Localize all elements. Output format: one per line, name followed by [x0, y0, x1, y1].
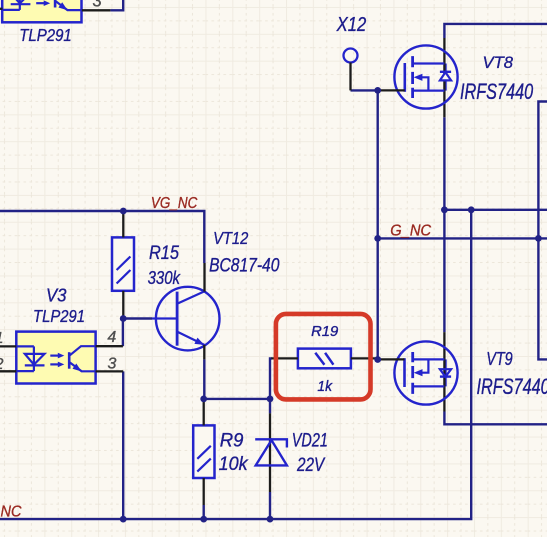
R9 bottom pin — [203, 478, 205, 505]
svg-text:BC817-40: BC817-40 — [209, 255, 280, 276]
svg-text:4: 4 — [107, 329, 116, 346]
R15 top pin — [122, 211, 124, 237]
VT9 gate pin — [378, 358, 405, 360]
wire G_NC vertical column — [377, 90, 379, 359]
zener diode VD21 — [255, 413, 287, 492]
svg-text:VD21: VD21 — [292, 430, 328, 452]
wire VD21 bottom stub — [269, 492, 271, 519]
wire G_NC horizontal — [378, 237, 547, 239]
svg-text:TLP291: TLP291 — [33, 306, 85, 326]
optocoupler V3 — [16, 332, 95, 384]
svg-text:R15: R15 — [149, 243, 179, 264]
pin 3 stub V3 — [96, 370, 124, 372]
optocoupler top (partial, cut at top edge) — [2, 0, 81, 22]
svg-text:VG_NC: VG_NC — [151, 195, 198, 212]
wire right column down to bottom bus — [0, 210, 471, 519]
VT12 emitter pin — [203, 345, 205, 360]
mosfet VT9 — [394, 332, 457, 411]
svg-text:330k: 330k — [148, 267, 182, 288]
svg-text:1: 1 — [0, 330, 4, 347]
svg-text:X12: X12 — [336, 14, 366, 36]
VT8 gate pin — [378, 89, 405, 91]
svg-text:VT8: VT8 — [483, 54, 514, 72]
R19 left pin — [271, 357, 298, 359]
transistor VT12 — [152, 287, 220, 351]
svg-text:IRFS7440: IRFS7440 — [477, 374, 547, 399]
resistor R15 — [112, 237, 134, 290]
wire R19 left drop — [270, 358, 272, 399]
resistor R19 — [298, 349, 351, 369]
pin 4 stub V3 — [96, 345, 123, 347]
svg-text:2: 2 — [0, 356, 4, 373]
svg-text:1k: 1k — [317, 379, 332, 395]
wire top pin3 to top edge — [110, 0, 123, 10]
svg-text:3: 3 — [108, 355, 117, 372]
wire right edge loop — [538, 102, 547, 360]
X12 pin — [349, 63, 351, 91]
wire V3 pin3 down to bus — [122, 371, 124, 519]
pin 2 stub V3 — [0, 370, 16, 372]
wire VT9 drain to right edge — [444, 412, 547, 425]
svg-text:V3: V3 — [46, 285, 67, 306]
wire VG_NC horizontal to VT12 collector — [0, 211, 204, 263]
R15 bottom pin — [122, 291, 124, 319]
red highlight box around R19 — [276, 314, 371, 400]
mosfet VT8 — [394, 38, 457, 117]
wire VT8 drain to top edge — [444, 24, 547, 38]
wire R9 bottom stub — [202, 505, 204, 519]
svg-text:10k: 10k — [219, 453, 249, 475]
pin 1 stub V3 — [0, 345, 16, 347]
svg-text:IRFS7440: IRFS7440 — [460, 79, 534, 104]
VT12 collector pin — [203, 263, 205, 292]
pin 2 stub (top optocoupler) — [0, 8, 3, 10]
svg-text:_NC: _NC — [0, 503, 22, 520]
R19 right pin — [351, 357, 378, 359]
svg-text:R9: R9 — [220, 429, 244, 451]
wire VT8 source down to VT9 — [443, 117, 445, 332]
wire VD21 top stub — [269, 399, 271, 413]
R9 top pin — [203, 399, 205, 426]
svg-text:22V: 22V — [296, 454, 326, 476]
wire base junction to VT12 — [123, 317, 152, 319]
wire V3 pin4 riser — [122, 319, 124, 347]
svg-text:G_NC: G_NC — [390, 223, 432, 240]
wire source rail to right edge — [444, 209, 547, 211]
resistor R9 — [193, 425, 214, 478]
svg-text:3: 3 — [93, 0, 103, 10]
svg-text:VT9: VT9 — [486, 349, 513, 369]
svg-text:R19: R19 — [311, 324, 338, 340]
svg-text:VT12: VT12 — [213, 228, 248, 248]
svg-text:TLP291: TLP291 — [19, 25, 72, 45]
pin 3 stub (top optocoupler) — [82, 9, 111, 11]
wire VT12 emitter to R9 — [203, 359, 205, 399]
wire emitter junction to VD21 junction — [204, 398, 270, 400]
wire X12 to gate junction — [351, 89, 378, 91]
connector X12 — [344, 49, 358, 63]
